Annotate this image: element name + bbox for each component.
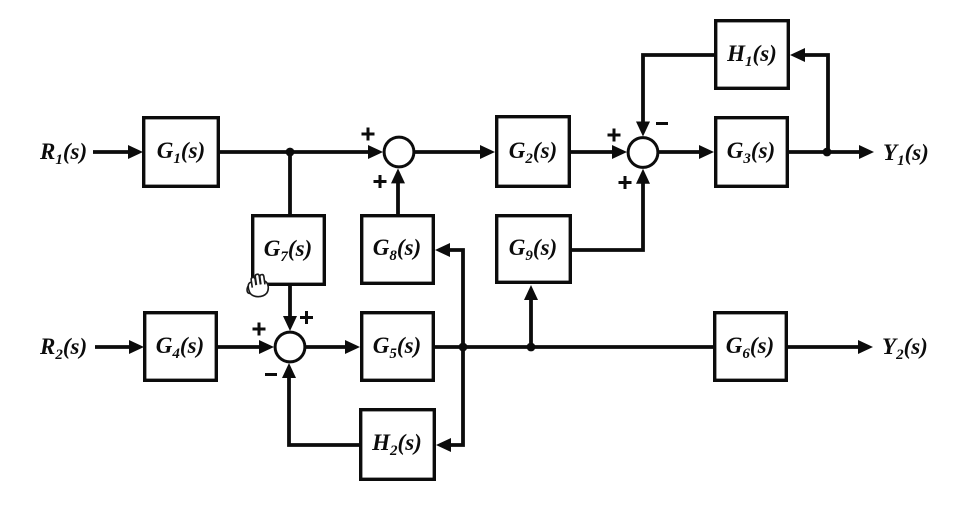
svg-text:Y1(s): Y1(s)	[883, 140, 929, 169]
plus sign at S3 left input	[253, 323, 266, 336]
block G9	[497, 216, 571, 283]
plus sign at S3 top input	[300, 311, 313, 324]
junction dot B on Y1 line	[823, 148, 832, 157]
summing junction S1	[384, 137, 414, 167]
node R2 input label	[39, 334, 87, 363]
node R1 input label	[39, 139, 87, 168]
wire R2 to G4 with arrowhead	[95, 340, 144, 354]
minus sign at S3 bottom input	[265, 373, 277, 376]
svg-text:G9(s): G9(s)	[509, 235, 557, 264]
svg-text:G6(s): G6(s)	[726, 333, 774, 362]
block G6	[715, 313, 787, 381]
wire H2 output left and up to S3 with arrowhead	[282, 363, 359, 445]
svg-text:G3(s): G3(s)	[727, 138, 775, 167]
node Y1 output label	[883, 140, 929, 169]
svg-text:G1(s): G1(s)	[157, 138, 205, 167]
wire G7 down to summing junction S3 with arrowhead	[283, 286, 297, 331]
plus sign at S1 bottom input	[374, 175, 387, 188]
block G4	[145, 313, 217, 381]
block H1	[716, 21, 789, 89]
junction dot D on G5 output	[527, 343, 536, 352]
plus sign at S2 bottom input	[619, 176, 632, 189]
node Y2 output label	[882, 334, 928, 363]
junction dot C on G5 output	[459, 343, 468, 352]
wire R1 to G1 with arrowhead	[93, 145, 143, 159]
wire node D up into G9 with arrowhead	[524, 285, 538, 347]
wire G5 output main line to G6	[435, 345, 713, 349]
wire G9 output right and up to S2 with arrowhead	[572, 169, 650, 250]
block G8	[362, 216, 434, 284]
block G5	[362, 313, 434, 381]
svg-text:G8(s): G8(s)	[373, 235, 421, 264]
wire G4 to summing junction S3 with arrowhead	[218, 340, 274, 354]
svg-text:G2(s): G2(s)	[509, 138, 557, 167]
minus sign at S2 top input	[656, 122, 668, 125]
wire G6 to Y2 output with arrowhead	[788, 340, 873, 354]
block G2	[497, 117, 570, 187]
summing junction S3	[275, 332, 305, 362]
svg-text:R1(s): R1(s)	[39, 139, 87, 168]
svg-text:R2(s): R2(s)	[39, 334, 87, 363]
wire S1 to G2 with arrowhead	[415, 145, 496, 159]
wire S2 to G3 with arrowhead	[659, 145, 715, 159]
plus sign at S1 left input	[362, 128, 375, 141]
wire G8 up to S1 with arrowhead	[391, 168, 405, 214]
wire node C down and left into H2 with arrowhead	[436, 347, 463, 452]
plus sign at S2 left input	[608, 129, 621, 142]
svg-text:G4(s): G4(s)	[156, 333, 204, 362]
wire S3 to G5 with arrowhead	[306, 340, 361, 354]
summing junction S2	[628, 138, 658, 168]
block G1	[144, 118, 219, 187]
svg-text:G5(s): G5(s)	[373, 333, 421, 362]
wire G1 to summing junction S1 with arrowhead	[220, 145, 383, 159]
hand cursor near G7	[244, 273, 270, 299]
wire node C up and left into G8 with arrowhead	[435, 243, 463, 347]
wire G2 to summing junction S2 with arrowhead	[571, 145, 627, 159]
wire H1 output left and down to S2 with arrowhead	[636, 55, 714, 137]
wire node A down to G7	[288, 152, 292, 214]
wire feedback from node B up to H1 with arrowhead	[790, 48, 828, 152]
block H2	[361, 410, 435, 480]
wire G3 to Y1 output with arrowhead	[789, 145, 874, 159]
svg-text:Y2(s): Y2(s)	[882, 334, 928, 363]
svg-text:G7(s): G7(s)	[264, 236, 312, 265]
block G3	[716, 118, 788, 187]
junction dot A on G1 output	[286, 148, 295, 157]
block G7	[253, 216, 325, 285]
